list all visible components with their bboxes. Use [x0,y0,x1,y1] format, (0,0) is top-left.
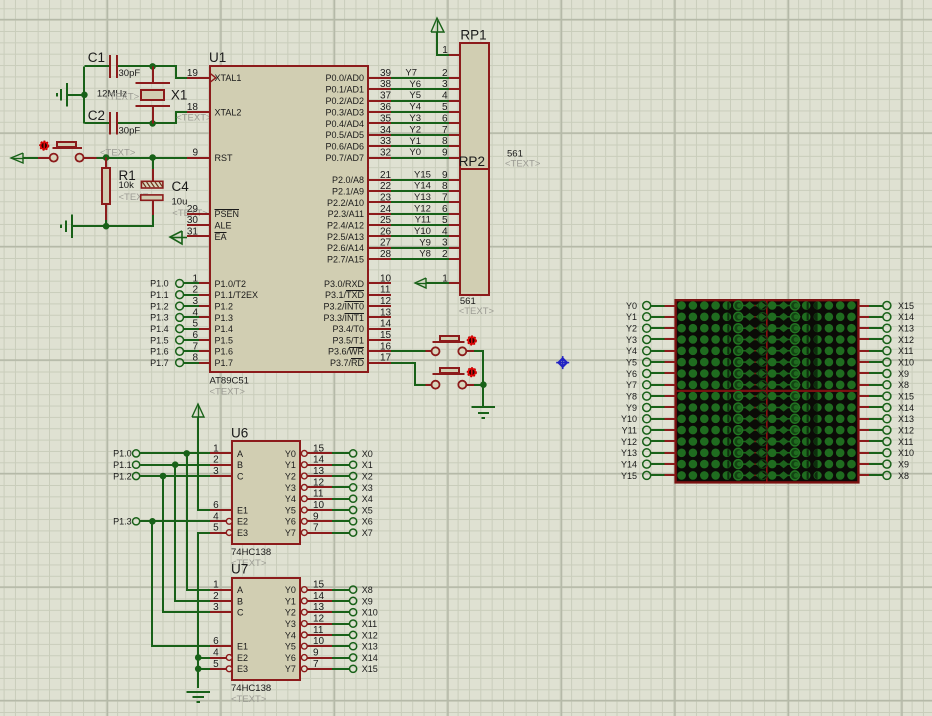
wire R1 bottom [105,220,107,226]
terminal X9 (matrix col 6) [883,369,909,379]
U7 pin 1 A [210,580,243,595]
ground (RST rail) [61,215,72,239]
svg-text:X2: X2 [362,471,373,481]
wire U7 Y0 to X8 [332,589,350,591]
junction P1.0 [183,450,190,457]
gray label near XTAL2 [176,112,212,123]
svg-text:13: 13 [313,602,325,613]
wire XTAL1 [153,66,187,78]
svg-text:P2.5/A13: P2.5/A13 [327,232,364,242]
svg-text:11: 11 [380,285,391,296]
wire P0.0 to RP1 (net Y7) [391,77,449,79]
svg-text:P1.3: P1.3 [113,517,132,527]
U6 pin 1 A [210,443,243,458]
junction R1 top [103,154,110,161]
svg-text:X9: X9 [898,460,909,470]
U1 pin 35 P0.4/AD4 [325,113,391,128]
svg-text:Y6: Y6 [626,369,637,379]
svg-text:12: 12 [313,614,325,625]
U7 pin 9 Y6 [285,648,332,663]
U7 pin 4 E2 [210,648,248,663]
svg-text:P1.3: P1.3 [215,313,234,323]
wire Y0 to matrix [651,305,676,307]
svg-text:U7: U7 [231,562,248,577]
wire XTAL2 [153,112,187,123]
wire matrix to X14 (row 9) [859,406,884,408]
svg-text:X12: X12 [898,335,914,345]
wire matrix to X15 (row 0) [859,305,884,307]
U6 pin 3 C [210,466,244,481]
wire P1.1 to U6.B [140,464,211,466]
svg-text:ALE: ALE [215,221,232,231]
terminal P1.0 (decoder side) [113,449,140,459]
svg-text:Y13: Y13 [621,448,637,458]
svg-text:28: 28 [380,249,392,260]
terminal X10 (matrix col 13) [883,448,914,458]
svg-text:E1: E1 [237,642,248,652]
wire P2.6 to RP2 (net Y9) [391,247,449,249]
svg-text:X6: X6 [362,517,373,527]
svg-text:X8: X8 [898,380,909,390]
wire P0.6 to RP1 (net Y1) [391,145,449,147]
svg-text:34: 34 [380,125,392,136]
wire Y1 to matrix [651,316,676,318]
U6 pin 15 Y0 [285,443,332,458]
svg-text:12: 12 [380,296,392,307]
terminal X8 [350,585,373,595]
svg-text:B: B [237,460,243,470]
node Y4 [409,102,421,113]
wire matrix to X8 (row 7) [859,384,884,386]
wire C4 bottom [72,215,153,226]
U6 pin 12 Y3 [285,477,332,492]
svg-text:P2.6/A14: P2.6/A14 [327,243,364,253]
svg-text:X13: X13 [898,324,914,334]
U6 pin 14 Y1 [285,455,332,470]
terminal P1.0 (U1 side) [150,279,183,289]
svg-text:4: 4 [213,648,219,659]
U1 pin 22 P2.1/A9 [332,181,392,196]
svg-text:36: 36 [380,102,392,113]
terminal X5 [350,505,373,515]
wire P0.5 to RP1 (net Y2) [391,134,449,136]
svg-text:11: 11 [313,489,324,500]
wire P1.5 to U1 [183,339,199,341]
svg-text:Y15: Y15 [414,169,431,180]
svg-text:E2: E2 [237,517,248,527]
wire U6 Y7 to X7 [332,532,350,534]
svg-text:Y13: Y13 [414,192,431,203]
svg-text:P1.6: P1.6 [150,347,169,357]
svg-text:11: 11 [313,625,324,636]
terminal X3 [350,483,373,493]
svg-text:1: 1 [442,273,448,284]
svg-text:X11: X11 [362,619,377,629]
wire buttons to ground [474,351,484,407]
U1 pin 19 XTAL1 [187,68,241,83]
terminal Y12 (matrix row) [621,437,651,447]
svg-text:7: 7 [313,523,319,534]
svg-text:X4: X4 [362,494,373,504]
U1 pin 32 P0.7/AD7 [325,148,391,163]
svg-text:Y12: Y12 [621,437,637,447]
decoder U6 body (74HC138) [231,425,300,569]
U7 pin 15 Y0 [285,580,332,595]
wire P2.1 to RP2 (net Y14) [391,190,449,192]
svg-text:Y9: Y9 [419,237,431,248]
svg-text:P1.5: P1.5 [150,335,169,345]
RP2 pin 1 [442,273,460,284]
svg-text:X9: X9 [362,596,373,606]
wire P1.0 to U1 [183,282,199,284]
svg-text:14: 14 [380,319,392,330]
svg-text:X10: X10 [898,358,914,368]
svg-text:C: C [237,471,244,481]
U7 pin 10 Y5 [285,636,332,651]
wire Y15 to matrix [651,474,676,476]
svg-text:15: 15 [313,580,325,591]
svg-text:Y1: Y1 [409,136,421,147]
wire U6 Y1 to X1 [332,464,350,466]
node Y11 [415,215,431,226]
svg-text:P1.2: P1.2 [150,301,169,311]
U1 pin 1 P1.0/T2 [187,273,246,288]
svg-text:P2.2/A10: P2.2/A10 [327,198,364,208]
wire P0.7 to RP1 (net Y0) [391,157,449,159]
svg-text:Y5: Y5 [626,358,637,368]
svg-text:P3.5/T1: P3.5/T1 [332,335,364,345]
svg-text:X3: X3 [362,483,373,493]
wire Y13 to matrix [651,452,676,454]
svg-text:Y15: Y15 [621,471,637,481]
wire matrix to X11 (row 12) [859,440,884,442]
svg-text:E1: E1 [237,505,248,515]
terminal X12 [350,630,378,640]
wire C1 to XTAL1 node [118,65,153,67]
svg-text:C4: C4 [172,179,190,194]
svg-text:P1.2: P1.2 [215,301,234,311]
U1 pin 9 RST [187,148,233,163]
capacitor C2 [88,108,141,136]
wire matrix to X11 (row 4) [859,350,884,352]
svg-text:XTAL1: XTAL1 [215,73,242,83]
terminal Y15 (matrix row) [621,471,651,481]
U1 pin 37 P0.2/AD2 [325,91,391,106]
node Y2 [409,124,421,135]
input terminal (RP2 pin1) [415,278,427,288]
wire C2 to XTAL2 node [118,122,153,124]
RP1 pin 4 [442,91,461,102]
svg-text:X14: X14 [362,653,378,663]
U1 pin 10 P3.0/RXD [324,273,392,288]
svg-text:P2.4/A12: P2.4/A12 [327,221,364,231]
svg-text:Y14: Y14 [621,460,637,470]
wire P0.4 to RP1 (net Y3) [391,122,449,124]
svg-text:P1.0: P1.0 [113,449,132,459]
junction P1.1 [172,461,179,468]
origin marker (blue) [556,356,569,369]
wire matrix to X12 (row 3) [859,338,884,340]
terminal P1.6 (U1 side) [150,347,183,357]
svg-text:X15: X15 [362,664,378,674]
wire terminal to RP2 pin1 [427,282,450,284]
U1 pin 12 P3.2/INT0 [323,296,391,311]
U1 pin 28 P2.7/A15 [327,249,392,264]
wire U6 Y0 to X0 [332,452,350,454]
terminal P1.7 (U1 side) [150,358,183,368]
svg-text:X14: X14 [898,403,914,413]
wire matrix to X13 (row 10) [859,418,884,420]
terminal Y8 (matrix row) [626,392,651,402]
ground (decoders) [187,692,211,702]
terminal Y4 (matrix row) [626,346,651,356]
svg-text:Y3: Y3 [409,113,421,124]
svg-text:P1.5: P1.5 [215,335,234,345]
svg-text:15: 15 [380,330,392,341]
svg-text:P0.1/AD1: P0.1/AD1 [325,85,364,95]
U7 pin 6 E1 [210,636,248,651]
wire P2.5 to RP2 (net Y10) [391,235,449,237]
U1 pin 13 P3.3/INT1 [323,307,391,322]
svg-text:P1.1/T2EX: P1.1/T2EX [215,290,259,300]
svg-text:74HC138: 74HC138 [231,547,271,558]
svg-text:Y7: Y7 [405,67,417,78]
junction XTAL2 node [149,120,156,127]
svg-text:Y6: Y6 [285,653,296,663]
svg-text:E3: E3 [237,528,248,538]
svg-text:XTAL2: XTAL2 [215,107,242,117]
U6 pin 11 Y4 [285,489,332,504]
terminal Y7 (matrix row) [626,380,651,390]
svg-text:10: 10 [313,636,325,647]
svg-text:2: 2 [213,455,219,466]
wire P2.3 to RP2 (net Y12) [391,213,449,215]
wire Y6 to matrix [651,372,676,374]
svg-text:6: 6 [213,636,219,647]
RP1 pin 1 [442,45,460,56]
U7 pin 3 C [210,602,244,617]
svg-text:33: 33 [380,136,392,147]
wire matrix to X10 (row 13) [859,452,884,454]
svg-text:P3.4/T0: P3.4/T0 [332,324,364,334]
terminal P1.3 (U1 side) [150,313,183,323]
wire P0.2 to RP1 (net Y5) [391,100,449,102]
svg-text:X1: X1 [362,460,373,470]
wire U6 Y6 to X6 [332,520,350,522]
wire Y2 to matrix [651,327,676,329]
wire Y3 to matrix [651,338,676,340]
svg-text:15: 15 [313,443,325,454]
svg-text:P2.7/A15: P2.7/A15 [327,254,364,264]
terminal X9 (matrix col 14) [883,460,909,470]
svg-text:Y11: Y11 [415,215,431,226]
wire U6 Y2 to X2 [332,475,350,477]
node Y12 [414,203,431,214]
svg-text:P1.4: P1.4 [215,324,234,334]
node Y5 [409,90,421,101]
node Y15 [414,169,431,180]
RP1 pin 9 [442,148,461,159]
svg-text:14: 14 [313,455,325,466]
wire U7 Y1 to X9 [332,600,350,602]
svg-text:Y7: Y7 [285,664,296,674]
wire P1.2 to U7 [163,476,210,612]
input terminal (RST) [11,153,23,163]
svg-text:Y8: Y8 [626,392,637,402]
node Y8 [419,249,431,260]
svg-text:Y9: Y9 [626,403,637,413]
svg-text:P1.4: P1.4 [150,324,169,334]
svg-text:Y4: Y4 [626,346,637,356]
svg-text:X15: X15 [898,301,914,311]
power terminal (U6 E1) [192,404,204,417]
terminal X15 (matrix col 8) [883,392,914,402]
terminal X8 (matrix col 7) [883,380,909,390]
wire matrix to X14 (row 1) [859,316,884,318]
svg-text:P2.0/A8: P2.0/A8 [332,175,364,185]
U7 pin 5 E3 [210,659,248,674]
RP2 pin 6 [442,204,461,215]
wire P3.7 to button [391,363,426,385]
svg-text:Y12: Y12 [414,203,431,214]
svg-text:X13: X13 [898,414,914,424]
wire U6 Y4 to X4 [332,498,350,500]
svg-text:P3.0/RXD: P3.0/RXD [324,279,365,289]
svg-text:74HC138: 74HC138 [231,683,271,694]
U6 pin 4 E2 [210,511,248,526]
svg-text:Y10: Y10 [414,226,431,237]
svg-text:P1.1: P1.1 [113,460,132,470]
terminal X11 (matrix col 12) [883,437,913,447]
svg-text:Y14: Y14 [414,181,431,192]
RP1 pin 7 [442,125,461,136]
svg-text:25: 25 [380,215,392,226]
svg-text:Y2: Y2 [409,124,421,135]
terminal X1 [350,460,373,470]
svg-text:22: 22 [380,181,392,192]
svg-text:A: A [237,449,243,459]
terminal X6 [350,517,373,527]
svg-text:Y11: Y11 [622,426,637,436]
svg-text:P0.4/AD4: P0.4/AD4 [325,119,364,129]
svg-text:<TEXT>: <TEXT> [459,306,495,317]
wire P0.3 to RP1 (net Y4) [391,111,449,113]
svg-text:17: 17 [380,353,392,364]
terminal X4 [350,494,373,504]
svg-text:P3.6/WR: P3.6/WR [328,347,365,357]
terminal X7 [350,528,373,538]
terminal X12 (matrix col 3) [883,335,914,345]
terminal Y14 (matrix row) [621,460,651,470]
decoder U7 body (74HC138) [231,562,300,706]
wire U7 Y7 to X15 [332,668,350,670]
RP1 pin 8 [442,136,461,147]
terminal Y5 (matrix row) [626,358,651,368]
U1 pin 3 P1.2 [187,296,233,311]
wire matrix to X13 (row 2) [859,327,884,329]
svg-text:3: 3 [213,466,219,477]
wire U7 Y4 to X12 [332,634,350,636]
svg-text:12: 12 [313,477,325,488]
terminal P1.5 (U1 side) [150,335,183,345]
svg-text:Y5: Y5 [285,642,296,652]
svg-text:X10: X10 [362,608,378,618]
wire Y14 to matrix [651,463,676,465]
terminal X13 (matrix col 10) [883,414,914,424]
svg-text:X8: X8 [898,471,909,481]
wire P1.4 to U1 [183,328,199,330]
U1 pin 8 P1.7 [187,353,233,368]
junction U7 E2 [195,654,202,661]
svg-text:30pF: 30pF [119,125,141,136]
node Y3 [409,113,421,124]
svg-text:27: 27 [380,238,392,249]
U7 pin 13 Y2 [285,602,332,617]
wire P1.3 to U1 [183,316,199,318]
svg-text:10: 10 [313,500,325,511]
svg-text:PSEN: PSEN [215,209,240,219]
RP2 pin 4 [442,226,461,237]
svg-text:P2.1/A9: P2.1/A9 [332,187,364,197]
svg-text:30pF: 30pF [119,68,141,79]
svg-text:26: 26 [380,226,392,237]
U1 pin 31 EA [187,226,227,241]
svg-text:P1.6: P1.6 [215,347,234,357]
svg-text:P1.0: P1.0 [150,279,169,289]
wire Y12 to matrix [651,440,676,442]
wire ground to rail [68,94,85,96]
U1 pin 39 P0.0/AD0 [325,68,391,83]
svg-text:X9: X9 [898,369,909,379]
terminal X10 (matrix col 5) [883,358,914,368]
svg-text:8: 8 [192,353,198,364]
svg-text:Y6: Y6 [285,517,296,527]
svg-text:30: 30 [187,215,199,226]
svg-text:Y1: Y1 [285,460,296,470]
wire P0.1 to RP1 (net Y6) [391,88,449,90]
svg-text:39: 39 [380,68,392,79]
svg-text:2: 2 [213,591,219,602]
U1 pin 16 P3.6/WR [328,341,392,356]
IC U1 (AT89C51 microcontroller) [209,50,368,398]
wire P1.0 to U6.A [140,452,211,454]
terminal X11 [350,619,378,629]
wire matrix to X9 (row 14) [859,463,884,465]
capacitor C1 [88,50,141,79]
svg-text:Y7: Y7 [626,380,637,390]
U1 pin 6 P1.5 [187,330,233,345]
svg-text:X12: X12 [898,426,914,436]
RP1 pin 5 [442,102,461,113]
svg-text:23: 23 [380,192,392,203]
terminal Y13 (matrix row) [621,448,651,458]
svg-text:B: B [237,596,243,606]
svg-text:U6: U6 [231,425,248,440]
wire U7 E2 tap [198,657,210,659]
svg-text:Y2: Y2 [626,324,637,334]
svg-text:RP2: RP2 [459,154,485,169]
svg-text:X12: X12 [362,630,378,640]
wire matrix to X8 (row 15) [859,474,884,476]
svg-text:X5: X5 [362,505,373,515]
wire Y5 to matrix [651,361,676,363]
svg-text:10: 10 [380,273,392,284]
wire P1.1 to U7 [175,465,210,601]
terminal Y1 (matrix row) [626,312,651,322]
U7 pin 12 Y3 [285,614,332,629]
terminal X14 (matrix col 1) [883,312,914,322]
resistor pack RP2 [459,149,541,317]
